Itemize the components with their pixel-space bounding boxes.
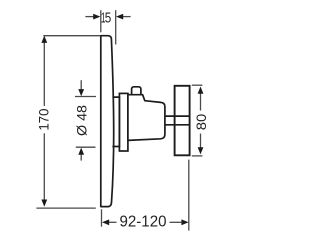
svg-text:170: 170 [36, 108, 52, 130]
svg-text:Ø 48: Ø 48 [74, 105, 90, 136]
dim 80: bottom arrow (pointing down) [198, 147, 204, 154]
button on handle body [132, 87, 141, 95]
handle bar (front view, 80 tall) [175, 86, 190, 156]
handle collar [119, 93, 128, 151]
dim 92-120: right extension line [188, 160, 190, 231]
handle body [128, 95, 165, 141]
dim 170: dimension line upper [43, 42, 45, 106]
dim 170: top extension line [43, 35, 100, 37]
dim 15: left extension line [100, 10, 102, 32]
dim 92-120: left extension line [101, 209, 103, 226]
dim 170: dimension line lower [43, 133, 45, 200]
svg-text:92-120: 92-120 [120, 213, 167, 230]
dim 80: dimension line lower [200, 134, 202, 148]
dim 80: top arrow (pointing up) [198, 87, 204, 94]
flange sleeve (O 48) [112, 97, 119, 146]
dim 15: left arrow [85, 16, 93, 18]
svg-text:5: 5 [105, 10, 112, 26]
dim 80: top extension line [192, 84, 203, 86]
dim 15: right extension line [115, 10, 117, 44]
dim 15: right arrow [123, 16, 131, 18]
dim 170: top arrow [41, 36, 47, 43]
dim O48: top tick [75, 96, 96, 98]
dim 170: bottom arrow [41, 200, 47, 207]
dim O48: bottom tick [76, 146, 96, 148]
stem lower line [165, 124, 190, 126]
stem upper line [165, 115, 190, 117]
dim 80: bottom extension line [192, 155, 203, 157]
dim 92-120: right arrow (pointing right) [181, 219, 188, 225]
svg-text:80: 80 [193, 114, 209, 131]
dim O48: top arrow (pointing down) [80, 80, 82, 89]
escutcheon plate (side view) [101, 36, 114, 207]
dim O48: bottom arrow (pointing up) [80, 155, 82, 161]
dim 92-120: left arrow (pointing left) [102, 219, 109, 225]
dim 80: dimension line upper [200, 94, 202, 111]
dim 170: bottom extension line [36, 207, 95, 209]
